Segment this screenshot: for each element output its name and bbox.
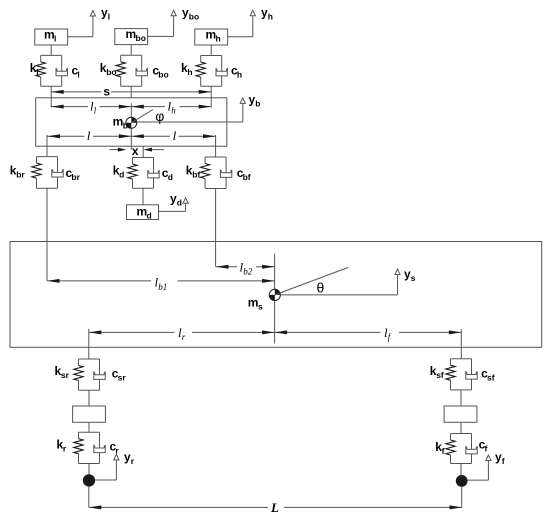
motion arrow y_f — [468, 455, 491, 480]
svg-text:br: br — [71, 172, 80, 182]
tractor frame rectangle — [10, 242, 542, 348]
svg-text:φ: φ — [155, 108, 164, 124]
spring k_r — [74, 439, 83, 454]
label k_br — [10, 164, 26, 180]
label l (front) — [173, 128, 177, 143]
label k_bf — [186, 164, 201, 180]
spring k_bo — [116, 62, 125, 77]
spring-damper unit k_r/c_r: frame — [79, 432, 100, 463]
dimension l_r — [89, 330, 275, 334]
mass block mass m_bo — [115, 29, 148, 45]
label l_r — [178, 325, 186, 342]
pitch line phi — [131, 110, 153, 123]
label k_r — [57, 438, 67, 454]
svg-text:bo: bo — [136, 33, 146, 43]
svg-text:b2: b2 — [243, 267, 253, 277]
svg-text:l: l — [54, 34, 56, 44]
spring k_d — [128, 164, 137, 179]
wire m_h to k_h unit — [210, 45, 212, 56]
svg-text:sr: sr — [61, 370, 70, 380]
damper c_sf — [466, 359, 477, 390]
svg-text:d: d — [168, 172, 173, 182]
label c_bf — [237, 166, 251, 182]
label y_f — [495, 450, 505, 466]
motion arrow y_bo — [148, 10, 177, 36]
mass block mass m_l — [35, 29, 68, 45]
svg-text:f: f — [388, 332, 392, 342]
pitch line theta — [275, 268, 348, 295]
label mass m_d — [137, 205, 152, 221]
wire rear wheel to L line — [88, 487, 90, 508]
label k_h — [181, 61, 193, 77]
svg-text:s: s — [411, 273, 416, 283]
spring k_bf — [201, 164, 210, 179]
motion arrow y_r — [95, 454, 119, 480]
dimension l_f — [275, 330, 462, 334]
dimension l front half — [131, 134, 215, 138]
svg-text:b: b — [255, 98, 260, 108]
svg-text:r: r — [131, 456, 135, 466]
body mass rectangle (m_b) — [36, 98, 227, 146]
spring k_sf — [446, 365, 455, 380]
wire frame to k_sr unit (with tick) — [88, 329, 90, 359]
spring k_h — [196, 62, 205, 77]
svg-text:θ: θ — [317, 279, 325, 295]
spring-damper unit k_br/c_br: frame — [37, 157, 58, 189]
wire k_bf link (body to unit, with tick) — [215, 135, 217, 157]
label y_r — [124, 450, 135, 466]
damper c_f — [466, 434, 477, 464]
wire m_l to k_l unit — [50, 45, 52, 55]
spring-damper unit k_bo/c_bo: frame — [121, 55, 142, 86]
spring-damper unit k_bf/c_bf: frame — [205, 157, 226, 189]
label l_b2 — [240, 259, 253, 276]
label c_h — [231, 64, 242, 80]
damper c_l — [56, 55, 67, 86]
spring k_sr — [74, 366, 83, 381]
damper c_br — [52, 157, 63, 189]
dimension l rear half — [48, 134, 132, 138]
label c_r — [110, 440, 120, 456]
spring-damper unit k_d/c_d: frame — [133, 158, 154, 189]
svg-text:bf: bf — [192, 170, 200, 180]
wire m_s centre line — [274, 254, 276, 344]
label y_b — [249, 92, 261, 108]
label k_sf — [430, 364, 444, 380]
wire k_sr to rear axle — [88, 390, 90, 406]
dimension s — [51, 90, 211, 94]
svg-text:L: L — [270, 500, 279, 515]
svg-text:r: r — [63, 444, 67, 454]
motion arrow y_b — [137, 98, 246, 122]
wire frame to k_sf unit (with tick) — [460, 329, 462, 359]
label k_sr — [55, 364, 70, 380]
label c_d — [162, 166, 173, 182]
dimension l_b2 — [216, 265, 275, 269]
dimension l_b1 — [47, 279, 275, 283]
mass block front axle block — [444, 406, 477, 422]
svg-text:h: h — [237, 70, 242, 80]
svg-text:b: b — [123, 120, 128, 130]
mass block mass m_h — [195, 29, 228, 45]
wire k_bf link to frame (l_b2 ref) — [215, 189, 217, 267]
svg-text:l: l — [94, 106, 97, 116]
svg-text:br: br — [16, 170, 25, 180]
spring-damper unit k_h/c_h: frame — [201, 56, 222, 87]
svg-text:sf: sf — [436, 370, 444, 380]
label l_f — [384, 325, 392, 342]
svg-text:x: x — [132, 144, 139, 158]
svg-text:bo: bo — [158, 70, 168, 80]
svg-text:b1: b1 — [158, 282, 167, 292]
label mass m_bo — [126, 27, 146, 43]
wire k_br link (body to unit, with tick) — [46, 135, 48, 157]
wire k_h unit to body — [210, 86, 212, 107]
motion arrow y_l — [68, 11, 96, 37]
wire k_bo unit to body — [130, 86, 132, 98]
label mass m_h — [206, 28, 221, 44]
wire front wheel to L line — [461, 487, 463, 508]
svg-text:bo: bo — [106, 67, 116, 77]
damper c_r — [94, 432, 105, 463]
wire k_d link — [142, 146, 144, 157]
motion arrow y_d — [159, 198, 189, 212]
wire k_sf to front axle — [460, 390, 462, 406]
spring-damper unit k_f/c_f: frame — [451, 434, 472, 464]
wire k_r to rear wheel — [88, 464, 90, 476]
label mass m_l — [44, 28, 56, 44]
svg-text:h: h — [171, 106, 176, 116]
label l_l — [90, 98, 97, 115]
label l (rear) — [87, 128, 91, 143]
wire rear axle to k_r — [88, 422, 90, 432]
motion arrow y_h — [228, 10, 256, 37]
svg-text:bo: bo — [189, 12, 199, 22]
label y_s — [404, 267, 416, 283]
wire k_br link to frame (l_b1 ref) — [46, 188, 48, 281]
label c_sr — [112, 367, 127, 383]
label m_s — [248, 296, 263, 312]
label y_bo — [182, 6, 199, 22]
svg-text:sr: sr — [118, 373, 127, 383]
svg-text:sf: sf — [487, 373, 495, 383]
svg-text:s: s — [258, 302, 263, 312]
label k_l — [30, 61, 39, 77]
center of mass m_b — [126, 117, 137, 128]
svg-text:d: d — [119, 170, 124, 180]
rear wheel contact point — [83, 474, 95, 486]
spring-damper unit k_sr/c_sr: frame — [79, 359, 100, 390]
damper c_d — [148, 158, 159, 189]
label y_d — [170, 191, 182, 207]
label phi — [155, 108, 164, 124]
svg-text:m: m — [248, 296, 259, 310]
label y_h — [261, 6, 273, 22]
svg-text:l: l — [77, 70, 79, 80]
svg-text:f: f — [442, 446, 445, 456]
label k_d — [113, 164, 125, 180]
svg-text:r: r — [115, 446, 119, 456]
svg-text:h: h — [216, 34, 221, 44]
svg-text:l: l — [87, 128, 91, 143]
dimension x — [110, 148, 165, 152]
damper c_bf — [220, 157, 231, 189]
wire k_d unit to m_d — [142, 188, 144, 205]
spring k_br — [32, 163, 41, 178]
svg-text:l: l — [173, 128, 177, 143]
label s — [103, 84, 110, 98]
label m_b — [113, 114, 128, 130]
dimension l_l — [51, 105, 131, 109]
svg-text:d: d — [177, 197, 182, 207]
label k_bo — [100, 61, 117, 77]
label k_f — [435, 440, 444, 456]
svg-text:s: s — [103, 84, 110, 98]
spring-damper unit k_l/c_l: frame — [41, 55, 62, 86]
svg-text:m: m — [113, 114, 124, 128]
spring k_l — [36, 62, 45, 77]
mass block mass m_d — [127, 205, 159, 220]
svg-text:h: h — [268, 12, 273, 22]
dimension l_h — [131, 105, 211, 109]
svg-text:r: r — [182, 332, 186, 342]
damper c_bo — [136, 55, 147, 86]
label c_bo — [152, 64, 168, 80]
svg-text:d: d — [147, 211, 152, 221]
wire m_b centre line — [130, 104, 132, 150]
wire k_l unit to body — [50, 86, 52, 107]
label theta — [317, 279, 325, 295]
motion arrow y_s — [280, 269, 400, 295]
label c_l — [72, 64, 80, 80]
center of mass m_s — [269, 289, 280, 300]
label c_f — [479, 438, 488, 454]
label x — [132, 144, 139, 158]
wire front axle to k_f — [460, 422, 462, 433]
mass block rear axle block — [73, 406, 106, 422]
label l_b1 — [155, 275, 168, 292]
label L — [270, 500, 279, 515]
spring k_f — [446, 440, 455, 455]
wire m_bo to k_bo unit — [130, 45, 132, 56]
damper c_sr — [94, 359, 105, 390]
front wheel contact point — [456, 475, 468, 487]
svg-text:h: h — [187, 67, 192, 77]
label c_sf — [481, 367, 495, 383]
label l_h — [168, 98, 177, 115]
svg-text:f: f — [485, 444, 488, 454]
svg-text:l: l — [36, 67, 38, 77]
label c_br — [66, 166, 81, 182]
label y_l — [101, 6, 110, 22]
svg-text:l: l — [108, 12, 110, 22]
wire k_f to front wheel — [460, 464, 462, 476]
damper c_h — [216, 56, 227, 87]
spring-damper unit k_sf/c_sf: frame — [451, 359, 472, 390]
svg-text:f: f — [502, 456, 505, 466]
dimension L — [89, 505, 462, 509]
svg-text:bf: bf — [243, 172, 251, 182]
